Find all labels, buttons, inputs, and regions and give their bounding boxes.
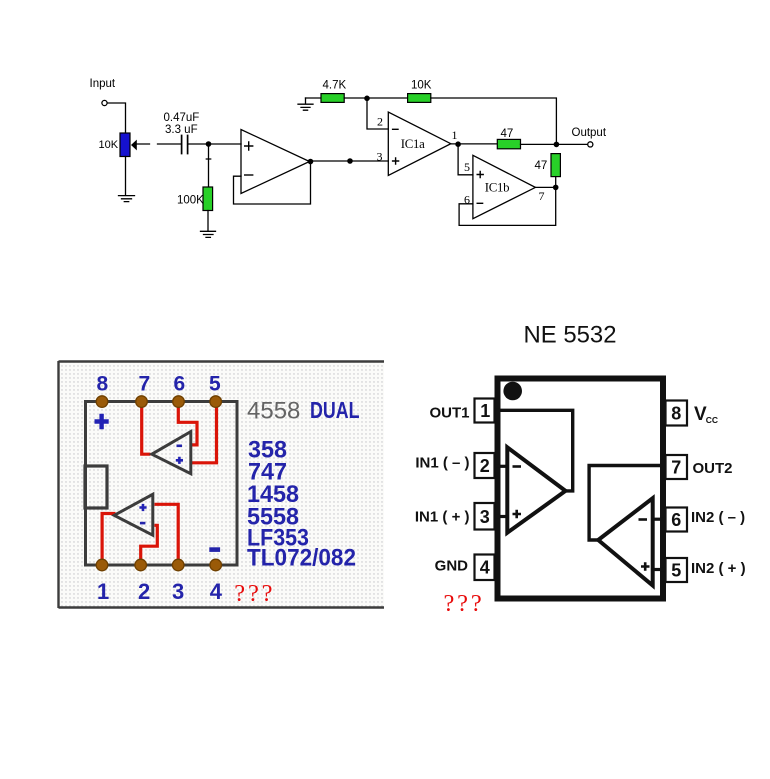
svg-text:3: 3: [377, 149, 383, 163]
pad pin7: [136, 396, 148, 408]
svg-text:IN2 ( + ): IN2 ( + ): [691, 560, 746, 577]
label 10K top: [411, 80, 432, 92]
feedback wire IC1b: [459, 189, 556, 225]
label 747: [248, 459, 287, 486]
opamp B triangle: [598, 498, 653, 585]
label IC1b: [485, 181, 509, 195]
svg-text:7: 7: [671, 458, 681, 478]
node junction at cap: [206, 141, 212, 147]
label 1458: [247, 481, 299, 508]
resistor R2 100K: [203, 187, 213, 211]
svg-text:GND: GND: [435, 558, 469, 575]
pad pin4: [210, 559, 222, 571]
pin box 7: [666, 455, 688, 479]
opamp B loop pin7: [589, 466, 662, 541]
svg-text:1: 1: [452, 128, 458, 142]
wire 47 to output: [521, 143, 588, 145]
svg-text:2: 2: [480, 456, 490, 476]
pin box 4: [475, 555, 495, 581]
svg-text:5: 5: [671, 561, 681, 581]
svg-text:8: 8: [97, 373, 109, 396]
op-amp U1 buffer: [241, 130, 310, 194]
label TL072/082: [247, 545, 356, 572]
svg-text:TL072/082: TL072/082: [247, 545, 356, 572]
pad pin3: [172, 559, 184, 571]
red trace pin5 to upper plus: [191, 404, 217, 463]
svg-text:47: 47: [535, 160, 548, 172]
wire node1 to IC1b pin5: [458, 146, 473, 175]
label IN2 plus: [691, 560, 746, 577]
pin number 6: [174, 373, 186, 396]
plus sign IC1b: [477, 172, 483, 178]
label OUT1: [429, 404, 469, 421]
question marks 4558: [234, 580, 275, 607]
svg-text:1: 1: [97, 579, 109, 604]
title NE 5532: [524, 322, 617, 349]
plus lower: [139, 504, 146, 511]
svg-text:IN1 ( – ): IN1 ( – ): [415, 454, 469, 471]
wire 4.7K to 10K: [344, 97, 407, 99]
pin box 3: [475, 503, 495, 530]
IC box 4558: [86, 402, 238, 566]
pad pin6: [173, 396, 185, 408]
pin number 7: [139, 373, 151, 396]
svg-text:5: 5: [464, 160, 470, 174]
wire input to pot: [107, 103, 125, 133]
label 10K: [99, 139, 119, 151]
svg-text:OUT2: OUT2: [693, 460, 733, 477]
pin number 8: [97, 373, 109, 396]
ground at 4.7K: [298, 98, 313, 110]
label VCC: [694, 404, 718, 425]
minus opamp A: [513, 465, 522, 468]
red trace pin7 to upper output: [142, 404, 151, 454]
label 47 vertical: [535, 160, 548, 172]
pin1 indicator dot: [503, 382, 522, 401]
resistor R4 10K: [408, 94, 431, 103]
red trace pin3 to lower plus: [155, 504, 179, 563]
ground under pot: [119, 196, 135, 202]
node output: [554, 142, 560, 148]
pad pin8: [96, 396, 108, 408]
label 358: [248, 437, 287, 464]
minus sign U1: [245, 174, 253, 176]
svg-text:10K: 10K: [411, 80, 432, 92]
svg-text:4558: 4558: [247, 398, 300, 425]
pad pin5: [210, 396, 222, 408]
input terminal: [102, 100, 107, 105]
panel background dotted: [59, 363, 384, 608]
pin number 3: [172, 579, 184, 604]
plus supply symbol: [95, 414, 109, 429]
wire U1 output to IC1a pin3: [311, 160, 389, 162]
minus sign IC1a: [393, 128, 398, 130]
IC body NE5532: [498, 379, 664, 599]
wire ground to 4.7K: [306, 97, 322, 99]
minus sign IC1b: [477, 202, 482, 204]
label 100K: [177, 195, 204, 207]
label IN2 minus: [691, 509, 745, 526]
wire pin5 to opamp B: [653, 568, 666, 571]
minus supply symbol: [209, 547, 220, 552]
label Output: [572, 127, 607, 139]
red trace pin2 to lower minus: [141, 525, 158, 563]
minus opamp B: [639, 518, 648, 521]
plus sign IC1a: [393, 158, 399, 164]
capacitor C1: [182, 136, 188, 154]
svg-text:IC1a: IC1a: [401, 137, 425, 151]
question marks NE5532: [444, 590, 485, 617]
pin label 3: [377, 149, 383, 163]
pin box 1: [475, 399, 495, 423]
label IN1 plus: [415, 509, 470, 526]
pin label 6: [464, 193, 470, 207]
label 0.47uF: [164, 112, 200, 124]
svg-text:2: 2: [377, 115, 383, 129]
potentiometer R1 10K: [120, 133, 137, 157]
svg-text:6: 6: [671, 510, 681, 530]
wire pin6 to opamp B: [653, 518, 666, 521]
pin number 2: [138, 579, 150, 604]
svg-text:Input: Input: [90, 78, 116, 90]
svg-text:8: 8: [671, 404, 681, 424]
svg-text:1: 1: [480, 401, 490, 421]
label IC1a: [401, 137, 425, 151]
resistor R5 47: [497, 139, 520, 148]
svg-text:3: 3: [480, 507, 490, 527]
label 4.7K: [323, 80, 347, 92]
svg-text:???: ???: [444, 590, 485, 617]
svg-text:NE 5532: NE 5532: [524, 322, 617, 349]
node junction on pin3 wire: [347, 158, 353, 164]
svg-text:IC1b: IC1b: [485, 181, 509, 195]
svg-text:10K: 10K: [99, 139, 119, 151]
svg-text:4: 4: [210, 579, 223, 604]
svg-text:DUAL: DUAL: [310, 397, 360, 423]
wire node to IC1a pin2: [367, 100, 388, 129]
node junction feedback: [364, 96, 370, 102]
svg-text:47: 47: [501, 128, 514, 140]
svg-text:7: 7: [539, 189, 545, 203]
label 4558: [247, 398, 300, 425]
output node U1: [308, 159, 314, 165]
wire 10K to output rail: [431, 98, 557, 142]
pin label 7: [539, 189, 545, 203]
pad pin1: [96, 559, 108, 571]
pin number 4: [210, 579, 223, 604]
svg-text:IN1 ( + ): IN1 ( + ): [415, 509, 470, 526]
svg-text:3: 3: [172, 579, 184, 604]
wire pin2 to opamp A: [495, 465, 508, 468]
label 47: [501, 128, 514, 140]
plus upper: [176, 457, 183, 464]
plus opamp B: [641, 562, 650, 570]
svg-text:5: 5: [209, 373, 221, 396]
plus opamp A: [513, 510, 522, 518]
panel border: [59, 361, 385, 608]
red trace pin1 to lower output: [102, 514, 115, 564]
svg-text:7: 7: [139, 373, 151, 396]
label DUAL: [310, 397, 360, 423]
op-amp lower 4558: [114, 494, 153, 535]
svg-text:100K: 100K: [177, 195, 204, 207]
notch rectangle: [85, 466, 107, 508]
wire 100K to ground: [207, 211, 209, 232]
pin number 1: [97, 579, 109, 604]
svg-text:4.7K: 4.7K: [323, 80, 347, 92]
pin box 6: [666, 508, 688, 532]
svg-text:CC: CC: [706, 415, 718, 425]
svg-text:OUT1: OUT1: [429, 404, 469, 421]
label LF353: [247, 525, 309, 552]
svg-text:???: ???: [234, 580, 275, 607]
label IN1 minus: [415, 454, 469, 471]
wire IC1b output: [535, 186, 555, 188]
op-amp IC1a: [388, 112, 451, 175]
label Input: [90, 78, 116, 90]
pin label 1: [452, 128, 458, 142]
svg-text:IN2 ( – ): IN2 ( – ): [691, 509, 745, 526]
red trace pin6 to upper minus: [178, 404, 197, 445]
pad pin2: [135, 559, 147, 571]
svg-text:3.3 uF: 3.3 uF: [165, 124, 198, 136]
pin label 5: [464, 160, 470, 174]
output terminal: [588, 142, 593, 147]
minus lower: [140, 522, 146, 525]
label OUT2: [693, 460, 733, 477]
pin label 2: [377, 115, 383, 129]
pin number 5: [209, 373, 221, 396]
resistor R3 4.7K: [321, 94, 344, 103]
op-amp upper 4558: [152, 432, 191, 474]
node IC1a output: [455, 141, 461, 147]
opamp A loop pin1: [495, 410, 573, 491]
resistor R6 47 vertical: [551, 154, 560, 186]
pin box 2: [475, 453, 495, 478]
svg-text:4: 4: [480, 558, 490, 578]
svg-text:6: 6: [174, 373, 186, 396]
wire pin3 to opamp A: [495, 515, 508, 518]
plus sign U1: [245, 142, 253, 150]
wire IC1a output: [451, 143, 498, 145]
pin box 5: [666, 558, 688, 582]
svg-text:0.47uF: 0.47uF: [164, 112, 200, 124]
svg-text:2: 2: [138, 579, 150, 604]
node IC1b output: [553, 185, 559, 191]
label 5558: [247, 503, 299, 530]
op-amp IC1b: [473, 155, 536, 218]
ground under 100K: [201, 231, 216, 237]
pin box 8: [666, 401, 688, 426]
opamp A triangle: [507, 447, 565, 532]
minus upper: [177, 445, 183, 448]
wire pot to ground: [125, 157, 127, 196]
feedback wire U1: [234, 162, 311, 205]
wire pot wiper to capacitor: [137, 143, 181, 145]
wire node down to 100K: [206, 146, 210, 187]
label 3.3 uF: [165, 124, 198, 136]
wire capacitor to op-amp: [189, 143, 242, 145]
label GND: [435, 558, 469, 575]
svg-text:Output: Output: [572, 127, 607, 139]
